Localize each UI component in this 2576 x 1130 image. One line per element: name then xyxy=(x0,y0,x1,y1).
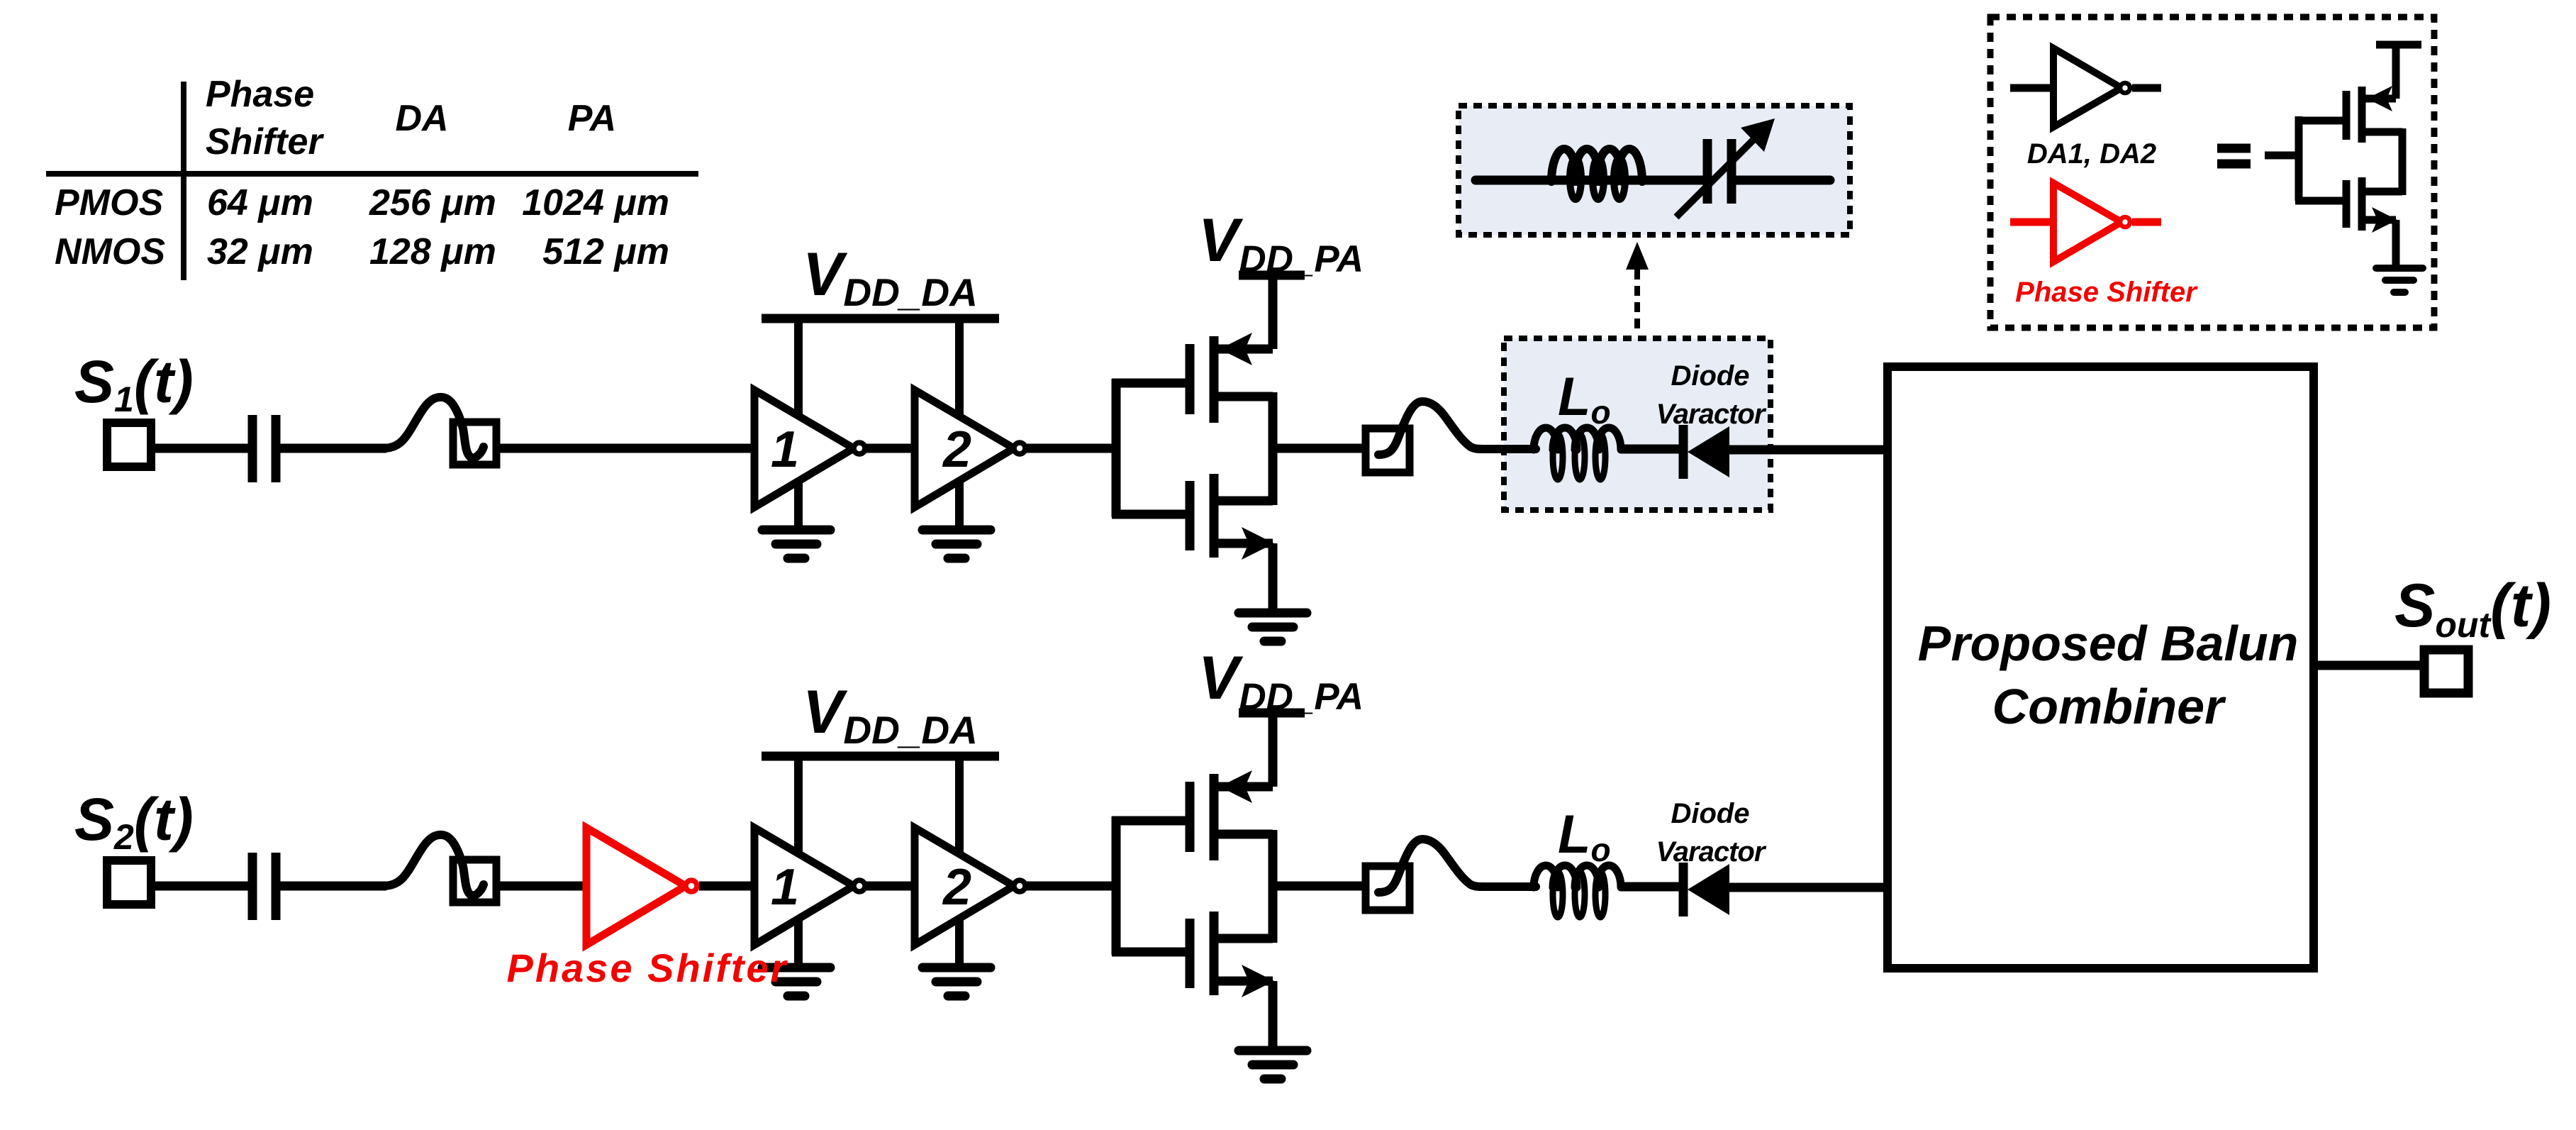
input bond wire (chain 2) xyxy=(383,835,484,895)
VDD_PA supply bar (chain 1) xyxy=(1239,271,1305,280)
output bubble of DA1 (chain 2) xyxy=(854,880,865,892)
PA PMOS channel bar (chain 2) xyxy=(1210,774,1219,860)
VDD drop to inverter 2 (chain 2) xyxy=(955,756,964,852)
svg-text:64 μm: 64 μm xyxy=(207,182,313,223)
wire capacitor to bond wire (chain 1) xyxy=(280,444,386,453)
legend VDD bar xyxy=(2376,41,2421,49)
svg-text:S1(t): S1(t) xyxy=(74,348,194,419)
ground drop inverter 2 (chain 1) xyxy=(955,481,964,532)
PA PMOS drain wire (chain 2) xyxy=(1214,830,1273,839)
svg-text:32 μm: 32 μm xyxy=(207,231,313,272)
svg-text:Varactor: Varactor xyxy=(1656,836,1767,868)
legend phase shifter bubble (red) xyxy=(2120,217,2130,227)
ground xyxy=(1239,1046,1307,1056)
capacitor Cchain 2 plate 2 xyxy=(272,853,281,920)
legend DA inverter bubble xyxy=(2120,83,2130,93)
legend PMOS source to VDD xyxy=(2392,45,2400,99)
PA NMOS source wire (chain 2) xyxy=(1214,977,1273,986)
VDD drop to inverter 1 (chain 2) xyxy=(794,756,803,852)
varactor diode (chain 1) xyxy=(1688,426,1729,477)
wire DA1 to DA2 (chain 1) xyxy=(864,444,918,453)
varactor diode (chain 2) xyxy=(1688,864,1729,915)
PA drain junction vertical (chain 1) xyxy=(1269,392,1278,505)
svg-text:1024 μm: 1024 μm xyxy=(522,182,669,223)
zoom detail wire xyxy=(1476,176,1702,185)
PA gate stub to NMOS (chain 2) xyxy=(1112,948,1190,957)
legend CMOS gate vertical xyxy=(2295,116,2303,201)
svg-text:128 μm: 128 μm xyxy=(369,231,496,272)
capacitor Cchain 1 plate 2 xyxy=(272,415,281,482)
svg-text:NMOS: NMOS xyxy=(55,231,165,272)
PA PMOS source to VDD (chain 1) xyxy=(1269,275,1278,349)
wire DA2 to PA gate (chain 1) xyxy=(1024,444,1120,453)
output bond wire (chain 1) xyxy=(1378,401,1536,455)
VDD_PA supply bar (chain 2) xyxy=(1239,709,1305,718)
wire pad to capacitor (chain 2) xyxy=(151,882,250,891)
PA PMOS drain wire (chain 1) xyxy=(1214,392,1273,401)
output bubble of DA1 (chain 1) xyxy=(854,443,865,454)
PA gate stub to PMOS (chain 1) xyxy=(1112,379,1190,388)
PA PMOS channel bar (chain 1) xyxy=(1210,336,1219,423)
legend PMOS source wire xyxy=(2362,95,2396,103)
svg-text:DA: DA xyxy=(395,98,448,139)
PA output pad (chain 2) xyxy=(1366,866,1410,910)
zoom detail variable capacitor plate 1 xyxy=(1703,139,1712,204)
legend PMOS gate bar xyxy=(2343,91,2351,140)
phase shifter output bubble xyxy=(686,880,697,892)
output wire to Sout pad xyxy=(2314,661,2424,670)
legend CMOS gate stub PMOS xyxy=(2295,117,2346,125)
wire Lo to varactor (chain 1) xyxy=(1621,445,1681,454)
ground drop inverter 2 (chain 2) xyxy=(955,919,964,970)
PA NMOS source arrow (chain 1) xyxy=(1242,527,1274,560)
wire pad to capacitor (chain 1) xyxy=(151,444,250,453)
wire chip pad to DA1 (chain 1) xyxy=(496,444,758,453)
PA drain junction vertical (chain 2) xyxy=(1269,830,1278,943)
legend DA inverter output wire xyxy=(2132,84,2161,92)
VDD drop to inverter 2 (chain 1) xyxy=(955,318,964,414)
VDD drop to inverter 1 (chain 1) xyxy=(794,318,803,414)
output bond wire (chain 2) xyxy=(1378,839,1536,892)
legend CMOS input wire xyxy=(2265,152,2302,160)
legend NMOS drain wire xyxy=(2362,188,2402,196)
wire capacitor to bond wire (chain 2) xyxy=(280,882,386,891)
legend NMOS source wire xyxy=(2362,216,2396,224)
zoomed detail box (inductor + variable capacitor) xyxy=(1459,106,1850,235)
svg-text:S2(t): S2(t) xyxy=(74,786,194,857)
Sout output pad xyxy=(2424,650,2468,693)
capacitor Cchain 1 plate 1 xyxy=(248,415,257,482)
legend NMOS source to ground xyxy=(2392,220,2400,270)
zoom detail variable capacitor plate 2 xyxy=(1727,139,1736,204)
legend NMOS gate bar xyxy=(2343,180,2351,228)
wire PA to output pad (chain 1) xyxy=(1273,444,1366,453)
chip input pad chain 1 xyxy=(453,422,496,465)
output bubble of DA2 (chain 2) xyxy=(1014,880,1025,892)
PA gate vertical (chain 1) xyxy=(1112,379,1121,517)
PA gate vertical (chain 2) xyxy=(1112,816,1121,955)
table horizontal rule xyxy=(46,171,698,177)
output bubble of DA2 (chain 1) xyxy=(1014,443,1025,454)
PA NMOS source arrow (chain 2) xyxy=(1242,965,1274,997)
wire varactor to balun (chain 2) xyxy=(1728,883,1892,892)
dashed arrow from highlight box to zoom box xyxy=(1634,270,1640,332)
svg-text:Diode: Diode xyxy=(1671,798,1749,829)
wire Lo to varactor (chain 2) xyxy=(1621,882,1681,892)
svg-text:256 μm: 256 μm xyxy=(369,182,496,223)
svg-text:Phase: Phase xyxy=(206,74,314,115)
svg-text:1: 1 xyxy=(771,859,799,916)
svg-text:512 μm: 512 μm xyxy=(542,231,669,272)
inductor Lo (chain 2) xyxy=(1534,865,1621,917)
inverter DA1 (chain 1) xyxy=(754,390,854,507)
ground xyxy=(922,963,991,973)
capacitor Cchain 2 plate 1 xyxy=(248,853,257,920)
PA NMOS gate bar (chain 2) xyxy=(1186,919,1195,988)
ground drop inverter 1 (chain 2) xyxy=(794,919,803,970)
PA PMOS source arrow (chain 2) xyxy=(1220,770,1252,803)
zoom detail variable-capacitor arrow xyxy=(1676,136,1757,217)
PA NMOS source to ground (chain 1) xyxy=(1269,543,1278,614)
table vertical rule xyxy=(181,82,186,280)
PA gate stub to NMOS (chain 1) xyxy=(1112,510,1190,519)
inverter DA1 (chain 2) xyxy=(754,828,854,945)
zoom detail wire right xyxy=(1736,176,1830,185)
PA PMOS gate bar (chain 1) xyxy=(1186,344,1195,414)
PA PMOS source to VDD (chain 2) xyxy=(1269,713,1278,787)
wire DA2 to PA gate (chain 2) xyxy=(1024,882,1120,891)
svg-text:Phase Shifter: Phase Shifter xyxy=(507,946,788,990)
PA PMOS source wire (chain 2) xyxy=(1214,782,1273,792)
inverter DA2 (chain 1) xyxy=(915,390,1014,507)
PA NMOS source wire (chain 1) xyxy=(1214,539,1273,548)
phase shifter inverter (red) xyxy=(586,828,686,945)
input pad chain 1 xyxy=(107,423,151,467)
PA PMOS source arrow (chain 1) xyxy=(1220,333,1252,365)
PA NMOS source to ground (chain 2) xyxy=(1269,981,1278,1052)
svg-text:1: 1 xyxy=(771,421,799,478)
legend DA inverter xyxy=(2053,48,2121,127)
svg-text:Diode: Diode xyxy=(1671,360,1749,392)
table of device sizes xyxy=(55,74,669,272)
wire varactor to balun (chain 1) xyxy=(1728,445,1892,455)
inverter DA2 (chain 2) xyxy=(915,828,1014,945)
svg-text:DA1, DA2: DA1, DA2 xyxy=(2027,138,2156,170)
varactor diode cathode bar (chain 1) xyxy=(1679,425,1688,479)
wire PA to output pad (chain 2) xyxy=(1273,882,1366,891)
PA PMOS gate bar (chain 2) xyxy=(1186,782,1195,852)
input bond wire (chain 1) xyxy=(383,397,484,458)
legend NMOS source arrow xyxy=(2372,207,2397,233)
legend drain junction vertical xyxy=(2399,128,2407,195)
inductor Lo (chain 1) xyxy=(1534,428,1621,480)
legend PMOS drain wire xyxy=(2362,128,2402,136)
legend PMOS source arrow xyxy=(2367,86,2392,111)
VDD_DA rail (chain 2) xyxy=(762,752,999,761)
PA gate stub to PMOS (chain 2) xyxy=(1112,816,1190,826)
PA NMOS drain wire (chain 1) xyxy=(1214,497,1273,506)
svg-text:Phase Shifter: Phase Shifter xyxy=(2015,277,2198,308)
legend NMOS channel bar xyxy=(2358,177,2366,231)
chip input pad chain 2 xyxy=(453,860,496,902)
svg-text:Varactor: Varactor xyxy=(1656,399,1767,430)
svg-text:2: 2 xyxy=(942,859,971,916)
ground xyxy=(762,963,830,973)
PA NMOS gate bar (chain 1) xyxy=(1186,481,1195,550)
wire phase shifter to DA1 (chain 2) xyxy=(699,882,758,891)
dashed highlight box around Lo and varactor (chain 1) xyxy=(1504,338,1771,510)
svg-text:2: 2 xyxy=(942,421,971,478)
ground xyxy=(922,526,991,535)
legend phase shifter input wire (red) xyxy=(2010,218,2056,226)
legend phase shifter output wire (red) xyxy=(2132,218,2161,226)
PA PMOS source wire (chain 1) xyxy=(1214,345,1273,354)
svg-text:PA: PA xyxy=(568,98,616,139)
input pad chain 2 xyxy=(107,860,151,904)
wire chip pad to phase shifter (chain 2) xyxy=(496,882,590,891)
ground xyxy=(762,526,830,535)
legend PMOS channel bar xyxy=(2358,87,2366,143)
PA output pad (chain 1) xyxy=(1366,428,1410,472)
legend CMOS gate stub NMOS xyxy=(2295,197,2346,205)
VDD_DA rail (chain 1) xyxy=(762,314,999,323)
legend dashed box xyxy=(1990,17,2434,328)
legend ground xyxy=(2376,265,2423,272)
svg-text:Combiner: Combiner xyxy=(1992,679,2226,734)
ground drop inverter 1 (chain 1) xyxy=(794,481,803,532)
legend phase shifter inverter (red) xyxy=(2053,183,2121,262)
svg-text:Proposed Balun: Proposed Balun xyxy=(1918,616,2299,671)
varactor diode cathode bar (chain 2) xyxy=(1679,863,1688,916)
ground xyxy=(1239,609,1307,618)
proposed balun combiner box xyxy=(1888,367,2314,968)
PA NMOS channel bar (chain 2) xyxy=(1210,912,1219,995)
svg-text:Shifter: Shifter xyxy=(206,121,324,162)
PA NMOS drain wire (chain 2) xyxy=(1214,934,1273,943)
legend DA inverter input wire xyxy=(2010,84,2056,92)
PA NMOS channel bar (chain 1) xyxy=(1210,474,1219,558)
wire DA1 to DA2 (chain 2) xyxy=(864,882,918,891)
zoom detail inductor xyxy=(1551,149,1642,199)
legend equals sign xyxy=(2217,144,2251,153)
svg-text:PMOS: PMOS xyxy=(55,182,163,223)
